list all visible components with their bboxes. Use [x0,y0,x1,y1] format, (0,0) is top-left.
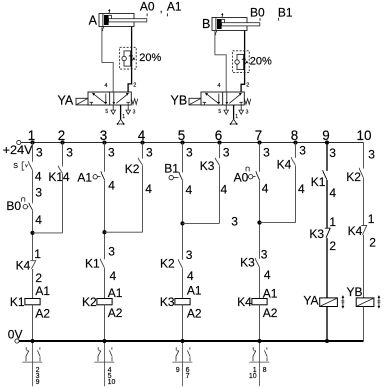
wire rung 5 from +24V rail [182,143,184,173]
svg-text:4: 4 [187,269,194,283]
svg-text:4: 4 [63,170,70,184]
svg-text:A1: A1 [35,284,50,298]
svg-text:4: 4 [217,83,220,89]
svg-text:A2: A2 [263,306,278,320]
svg-text:4: 4 [110,269,117,283]
contact cross-reference K3 rungs 9 | 6 7 [182,343,184,386]
contact cross-reference K2 rungs 4 5 10 [104,343,106,386]
svg-text:A1: A1 [187,284,202,298]
svg-text:A0: A0 [140,0,155,14]
tube cylinder B rear port to valve YB port 4 [215,31,226,92]
svg-text:B0: B0 [250,6,265,20]
svg-text:8: 8 [263,367,267,374]
wire rung 8 from +24V rail [295,143,297,158]
svg-text:3: 3 [66,146,73,160]
rail junction dots [30,140,34,144]
wire rung 1 from +24V rail [32,143,34,162]
wire [259,180,261,258]
wire to 0V [182,305,184,341]
svg-text:K4: K4 [277,158,292,172]
tube cylinder A rear port to valve YA port 4 [102,27,113,92]
svg-text:A1: A1 [77,170,92,184]
svg-text:4: 4 [145,182,152,196]
relay coil K2 A1-A2 [97,299,112,305]
svg-text:7: 7 [186,373,190,380]
wire to 0V [32,305,34,341]
svg-text:9: 9 [176,367,180,374]
junction rungs 5-6 [180,221,184,225]
svg-text:1: 1 [34,247,41,261]
svg-text:3: 3 [368,147,375,161]
wire down to junction [295,166,297,223]
tube cylinder A front port through flow control to valve YA port 2 [128,27,132,92]
wire down to junction [219,165,221,223]
svg-text:K4: K4 [16,258,31,272]
svg-text:5: 5 [218,109,221,115]
relay coil K4 A1-A2 [252,299,267,305]
wire [104,180,106,259]
svg-text:K2: K2 [125,162,140,176]
wire [32,211,34,261]
svg-text:3: 3 [246,109,249,115]
svg-text:3: 3 [146,146,153,160]
svg-text:3: 3 [299,144,306,158]
svg-text:20%: 20% [250,56,272,68]
wire [326,238,328,298]
svg-text:K2: K2 [160,257,175,271]
wire rung 9 from +24V rail (energized) [326,143,328,171]
svg-text:K4: K4 [348,224,363,238]
svg-text:S: S [13,163,18,170]
+24V supply rail [17,140,21,144]
svg-text:A0: A0 [234,170,249,184]
junction rungs 1-2 [30,231,34,235]
svg-text:4: 4 [329,186,336,200]
svg-text:4: 4 [104,83,107,89]
wire [104,268,106,299]
valve link marker YA [342,296,344,308]
0V return rail [15,339,19,343]
svg-text:4: 4 [108,179,115,193]
svg-text:K1: K1 [10,295,25,309]
svg-text:1: 1 [235,114,238,120]
wire [363,178,365,225]
junction rungs 3-4 [102,230,106,234]
valve link marker YB [378,296,380,308]
svg-text:A2: A2 [108,306,123,320]
relay coil K3 A1-A2 [175,299,190,305]
contact cross-reference K4 rungs 1 10 | 8 [259,343,261,386]
svg-text:K1: K1 [48,170,63,184]
svg-text:1: 1 [368,212,375,226]
cylinder B [212,18,247,31]
0V junction dot rung 3 [102,339,106,343]
wire rung 6 from +24V rail [219,143,221,159]
svg-text:4: 4 [262,181,269,195]
valve YA 5/2 solenoid valve [76,98,88,105]
svg-text:2: 2 [369,235,376,249]
svg-text:A2: A2 [35,306,50,320]
svg-text:3: 3 [186,146,193,160]
wire to 0V [259,305,261,341]
wire to 0V (energized) [326,307,328,342]
svg-text:K3: K3 [200,159,215,173]
svg-text:YB: YB [347,285,363,299]
wire rung 6 joins rung 5 [183,222,220,224]
valve YB 5/2 solenoid valve [189,98,201,105]
svg-text:3: 3 [329,146,336,160]
wire rung 8 joins rung 7 [260,222,296,224]
svg-text:B1: B1 [278,6,293,20]
svg-text:2: 2 [246,83,249,89]
wire [363,235,365,298]
wire [259,267,261,298]
flow control valve A 20% [120,47,137,69]
svg-text:K1: K1 [311,175,326,189]
svg-text:10: 10 [249,373,257,380]
svg-text:K2: K2 [346,170,361,184]
svg-text:0V: 0V [8,327,23,341]
svg-text:4: 4 [35,169,42,183]
svg-text:4: 4 [221,183,228,197]
svg-text:B1: B1 [164,161,179,175]
svg-text:10: 10 [357,128,372,143]
svg-text:A1: A1 [167,0,182,14]
svg-text:5: 5 [105,109,108,115]
svg-text:+24V: +24V [3,143,33,157]
svg-text:4: 4 [264,268,271,282]
svg-text:3: 3 [133,109,136,115]
wire rung 4 from +24V rail [142,143,144,159]
svg-text:K4: K4 [237,295,252,309]
0V junction dot rung 7 [257,339,261,343]
wire [326,180,328,228]
svg-text:K3: K3 [309,227,324,241]
svg-text:4: 4 [35,213,42,227]
svg-text:,: , [160,4,163,15]
0V junction dot rung 9 [325,339,329,343]
junction rungs 7-8 [257,221,261,225]
svg-text:2: 2 [35,271,42,285]
svg-text:3: 3 [261,247,268,261]
wire [182,181,184,260]
svg-text:9: 9 [36,379,40,386]
0V junction dot rung 1 [30,339,34,343]
svg-text:2: 2 [133,83,136,89]
svg-text:3: 3 [231,215,238,229]
wire [182,268,184,298]
svg-text:4: 4 [298,182,305,196]
wire down to junction [142,165,144,232]
relay coil K1 A1-A2 [25,299,40,305]
svg-text:3: 3 [108,244,115,258]
svg-text:K1: K1 [85,257,100,271]
svg-text:B0: B0 [6,199,21,213]
svg-text:3: 3 [108,146,115,160]
svg-text:3: 3 [36,146,43,160]
flow control valve B 20% [233,51,250,73]
0V junction dot rung 5 [180,339,184,343]
svg-text:3: 3 [263,146,270,160]
svg-text:A2: A2 [187,307,202,321]
wire rung 4 joins rung 3 [105,231,143,233]
svg-text:1: 1 [329,215,336,229]
wire down to junction [62,174,64,233]
svg-text:YA: YA [58,93,74,107]
wire rung 10 from +24V rail corner [363,143,365,169]
svg-text:20%: 20% [139,52,161,64]
svg-text:YA: YA [303,294,318,308]
tube cylinder B front port through flow control to valve YB port 2 [241,31,245,92]
svg-text:K3: K3 [160,295,175,309]
wire to 0V [104,305,106,341]
svg-text:3: 3 [223,146,230,160]
svg-text:A: A [89,14,98,28]
svg-text:YB: YB [171,93,188,107]
wire [32,269,34,299]
svg-text:3: 3 [35,186,42,200]
wire rung 3 from +24V rail [104,143,106,172]
wire rung 7 from +24V rail [259,143,261,172]
cylinder A [99,14,134,27]
svg-text:2: 2 [329,239,336,253]
wire rung 2 joins rung 1 [33,232,63,234]
svg-text:10: 10 [108,379,116,386]
contact cross-reference K1 rungs 2 3 9 [32,343,34,386]
wire rung 2 from +24V rail [62,143,64,167]
wire [32,170,34,203]
svg-text:K2: K2 [82,295,97,309]
svg-text:4: 4 [186,183,193,197]
svg-text:1: 1 [122,114,125,120]
svg-text:K3: K3 [240,256,255,270]
svg-text:3: 3 [186,248,193,262]
wire to 0V corner [363,307,365,342]
svg-text:B: B [202,17,210,31]
